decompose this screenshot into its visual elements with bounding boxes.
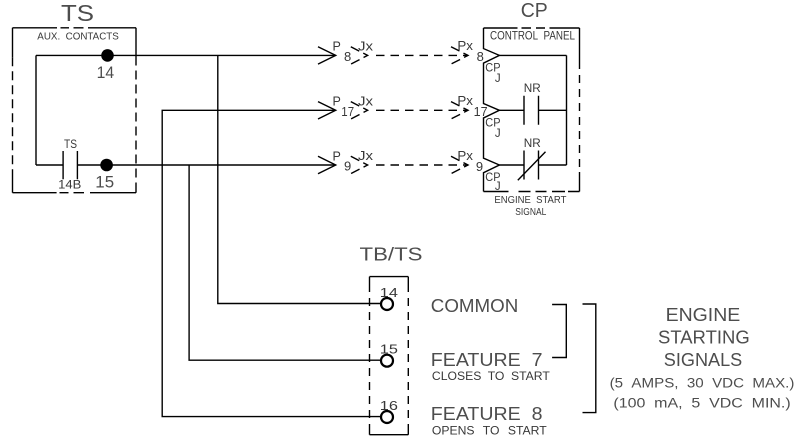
- svg-text:Jx: Jx: [358, 39, 374, 53]
- svg-text:CLOSES TO START: CLOSES TO START: [432, 369, 550, 383]
- TS enclosure dashed box: [13, 28, 137, 193]
- svg-text:ENGINE START: ENGINE START: [494, 195, 566, 206]
- svg-text:CONTROL PANEL: CONTROL PANEL: [490, 29, 575, 43]
- bracket COMMON to FEATURE 7: [552, 305, 566, 358]
- svg-text:SIGNALS: SIGNALS: [664, 350, 742, 370]
- wire dashed row 8: [376, 54, 468, 56]
- jack Jx pin 9: [351, 156, 368, 173]
- wire aux contacts left leg: [35, 55, 37, 165]
- svg-text:14B: 14B: [58, 178, 81, 192]
- jack Jx pin 17: [351, 102, 368, 119]
- node 15 junction dot: [100, 159, 113, 172]
- terminal 16: [381, 411, 393, 423]
- svg-text:TS: TS: [64, 137, 77, 151]
- node 14 junction dot: [101, 49, 114, 62]
- bracket COMMON to FEATURE 8: [583, 304, 596, 413]
- svg-text:COMMON: COMMON: [431, 296, 519, 316]
- contact TS 14B bars: [63, 151, 77, 179]
- plug Px pin 17: [451, 102, 468, 119]
- svg-text:TB/TS: TB/TS: [360, 244, 423, 265]
- svg-text:9: 9: [344, 159, 351, 174]
- svg-text:P: P: [333, 40, 341, 54]
- plug Px pin 9: [451, 156, 468, 173]
- wire row 14 to plug P8: [36, 54, 336, 56]
- wire CP row 17 internal: [499, 109, 566, 111]
- svg-text:TS: TS: [61, 0, 94, 26]
- svg-text:Px: Px: [457, 39, 473, 53]
- NC contact slash: [518, 152, 546, 181]
- svg-text:P: P: [333, 95, 341, 109]
- svg-text:STARTING: STARTING: [658, 328, 750, 348]
- CP enclosure left edge with connector notches: [484, 28, 500, 192]
- svg-text:NR: NR: [524, 81, 541, 95]
- svg-text:Px: Px: [457, 94, 473, 108]
- svg-text:J: J: [495, 128, 501, 140]
- plug P pin 8: [318, 47, 336, 64]
- svg-text:16: 16: [380, 399, 398, 413]
- svg-text:8: 8: [344, 49, 351, 64]
- svg-text:Jx: Jx: [358, 149, 374, 163]
- svg-text:AUX. CONTACTS: AUX. CONTACTS: [37, 31, 119, 43]
- TB/TS enclosure: [370, 277, 409, 435]
- svg-text:(100 mA, 5 VDC MIN.): (100 mA, 5 VDC MIN.): [613, 396, 790, 411]
- svg-text:P: P: [333, 149, 341, 163]
- CP enclosure right edge: [579, 28, 581, 192]
- terminal 14: [381, 298, 393, 310]
- svg-text:CP: CP: [521, 0, 548, 22]
- wire dashed row 9: [376, 164, 468, 166]
- contact NR normally-closed: [524, 151, 539, 180]
- svg-text:9: 9: [476, 159, 483, 174]
- svg-text:15: 15: [380, 342, 398, 356]
- svg-text:FEATURE 8: FEATURE 8: [431, 404, 543, 424]
- svg-text:Jx: Jx: [358, 94, 374, 108]
- svg-text:14: 14: [97, 64, 115, 82]
- wire node15 row to TB terminal 15: [189, 165, 381, 360]
- wire row 17 to TB terminal 16: [162, 110, 381, 416]
- svg-text:Px: Px: [457, 149, 473, 163]
- plug Px pin 8: [451, 47, 468, 64]
- wire CP row 8 internal: [499, 54, 566, 56]
- svg-text:15: 15: [95, 173, 114, 192]
- CP enclosure top edge: [484, 27, 580, 29]
- jack Jx pin 8: [351, 47, 368, 64]
- svg-text:SIGNAL: SIGNAL: [515, 207, 546, 218]
- plug P pin 9: [318, 156, 336, 173]
- svg-text:14: 14: [380, 286, 398, 300]
- terminal 15: [381, 355, 393, 367]
- wire dashed row 17: [376, 109, 468, 111]
- wire CP right bus: [566, 55, 568, 165]
- wire row 15 to plug P9: [36, 164, 336, 166]
- svg-text:(5 AMPS, 30 VDC MAX.): (5 AMPS, 30 VDC MAX.): [610, 376, 795, 391]
- svg-text:ENGINE: ENGINE: [666, 305, 741, 325]
- svg-text:8: 8: [477, 49, 484, 64]
- svg-text:NR: NR: [524, 136, 541, 150]
- svg-text:J: J: [495, 73, 501, 85]
- svg-text:FEATURE 7: FEATURE 7: [431, 350, 543, 370]
- contact NR normally-open: [524, 96, 539, 125]
- plug P pin 17: [318, 102, 336, 119]
- wire node14 row to TB terminal 14: [218, 55, 381, 303]
- svg-text:17: 17: [341, 104, 354, 119]
- CP enclosure bottom edge: [484, 191, 580, 193]
- wire CP row 9 internal: [499, 164, 566, 166]
- svg-text:OPENS TO START: OPENS TO START: [432, 424, 547, 438]
